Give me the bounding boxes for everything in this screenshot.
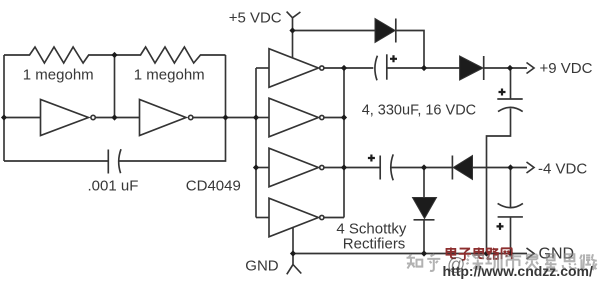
wire D2 to +9 node [484,67,527,69]
plus C3 [368,155,375,162]
svg-text:http://www.cndzz.com/: http://www.cndzz.com/ [443,263,593,279]
capacitor C1 .001uF plates [107,150,109,174]
op-amp U1C bubble [320,66,324,70]
node U1A out [111,114,117,120]
wire C4 to ground jog [487,109,511,254]
capacitor C4 filter plates [497,98,522,100]
wire output stub 2 [324,117,344,119]
wire U1F to GND connector [292,227,294,253]
svg-text:4, 330uF, 16 VDC: 4, 330uF, 16 VDC [362,103,476,119]
wire C3 to D4 [391,167,453,169]
wire output bus [343,68,345,218]
node mid 424 [421,164,427,170]
node R1-R2 [111,52,117,58]
wire C5 to rail [510,217,512,254]
ground connector Y [287,254,302,275]
diode D1 [375,19,395,43]
+9 VDC arrowhead [527,63,535,74]
wire -4 node down to C5 [510,168,512,208]
node bus in 2 [253,114,259,120]
op-amp U1E buffer triangle [269,148,318,187]
node bus out 1 [341,65,347,71]
svg-text:-4 VDC: -4 VDC [538,160,587,177]
node bus in 3 [253,164,259,170]
wire D4 to -4 node [473,167,528,169]
node rail 424 [421,250,427,256]
diode D4 left [451,156,453,180]
op-amp U1A bubble [91,115,95,119]
watermark red site name '电子电路网' [446,247,512,259]
plus C5 [497,223,504,230]
wire input stub 1 [256,67,269,69]
node rail 486 [483,250,489,256]
node U1B out feedback [222,114,228,120]
op-amp U1E bubble [320,165,324,169]
GND arrowhead right [512,248,534,259]
capacitor C3 pump plates [379,156,381,180]
wire R1/R2 node down [114,55,116,118]
-4 VDC arrowhead [527,162,535,173]
wire D1 to corner [396,31,424,69]
wire +5 rail [293,30,375,32]
node bus out 2 [341,114,347,120]
node -4 [507,164,513,170]
wire U1A to U1B [96,117,140,119]
op-amp U1F bubble [320,215,324,219]
op-amp U1D bubble [320,115,324,119]
svg-text:1 megohm: 1 megohm [134,67,205,84]
wire R2 right down [225,55,227,118]
wire bus to C3 [344,167,380,169]
wire inverter U1A input [4,117,41,119]
wire input bus [255,68,257,218]
node +9 [507,65,513,71]
watermark gray zhihu id [407,254,597,271]
resistor R2 [115,47,226,63]
node top corner 424 [421,65,427,71]
op-amp U1C buffer triangle [269,49,318,88]
op-amp U1A inverter triangle [41,100,89,136]
wire U1B output to bus [193,117,256,119]
wire feedback bottom right [119,118,225,162]
wire output stub 3 [324,167,344,169]
resistor R1 [4,47,115,63]
ground rail [293,253,512,255]
wire C2 to D2 [387,67,460,69]
capacitor C5 filter plates [498,203,523,207]
capacitor C2 pump plates [375,56,378,81]
node left rail input [1,114,7,120]
node junction dots [1,27,514,256]
svg-text:+9 VDC: +9 VDC [540,60,593,77]
node rail 510 [507,250,513,256]
op-amp U1B inverter triangle [140,100,187,136]
svg-text:+5 VDC: +5 VDC [229,9,282,26]
diode D2 [460,56,483,80]
wire input stub 4 [256,217,269,219]
op-amp U1B bubble [189,115,193,119]
wire input stub 3 [256,167,269,169]
node bus out 3 [341,164,347,170]
svg-text:CD4049: CD4049 [186,177,241,194]
plus C2 [390,55,397,62]
svg-text:1 megohm: 1 megohm [23,67,94,84]
wire feedback bottom left [4,160,108,162]
node +5 rail [289,27,295,33]
wire input stub 2 [256,117,269,119]
svg-text:GND: GND [245,257,278,274]
op-amp U1D buffer triangle [269,98,318,137]
wire +5 into U1C [292,31,294,59]
wire bus to C2 [344,67,373,69]
op-amp U1F buffer triangle [269,198,318,237]
wire output stub 1 [324,67,344,69]
svg-text:.001 uF: .001 uF [88,177,139,194]
svg-text:Rectifiers: Rectifiers [343,235,406,252]
node gnd connector [290,250,296,256]
wire +9 node down to C4 [510,68,512,99]
plus signs [368,55,506,230]
wire output stub 4 [324,217,344,219]
+5 VDC connector Y [287,12,301,31]
diode D3 down [423,168,425,198]
wire left rail [3,55,5,161]
plus C4 [499,89,506,96]
